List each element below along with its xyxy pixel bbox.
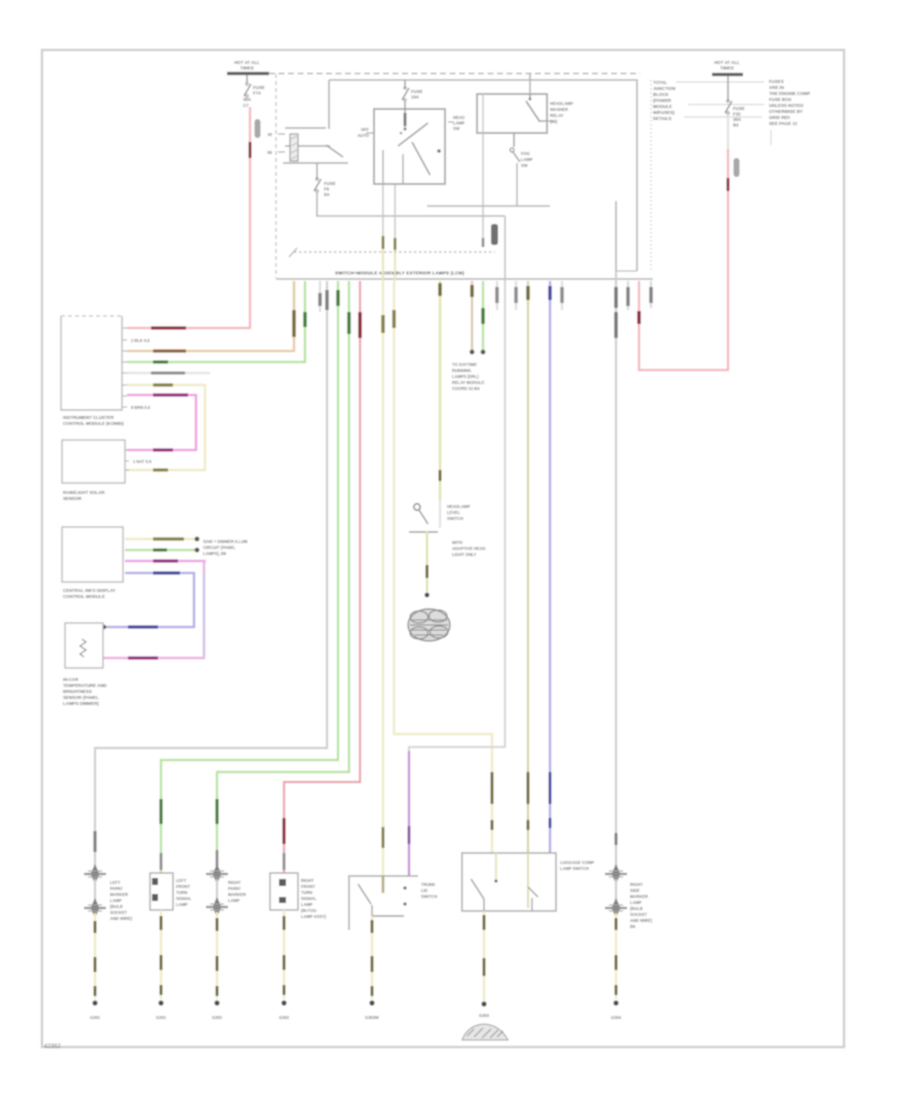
ground G301 col1 [90, 1000, 101, 1020]
svg-text:RIGHT: RIGHT [301, 878, 314, 883]
svg-text:CENTRAL INFO DISPLAY: CENTRAL INFO DISPLAY [63, 588, 116, 593]
svg-text:BRIGHTNESS: BRIGHTNESS [63, 689, 92, 694]
svg-text:SIDE: SIDE [630, 888, 640, 893]
fuse F4 above switch [402, 80, 423, 109]
label segments on mech rods [382, 236, 385, 249]
svg-text:10A: 10A [411, 95, 420, 100]
svg-text:RIGHT: RIGHT [228, 880, 241, 885]
fuse F1 (left, 30A) [243, 75, 265, 108]
svg-text:SWITCH: SWITCH [447, 516, 463, 521]
node HOT AT ALL TIMES (right) [714, 60, 740, 71]
wire green to left front turn lamp (cascade 2) [161, 281, 338, 873]
module M1 instrument cluster box [61, 316, 122, 410]
relay K2 right pin label [547, 101, 573, 124]
junction block dashed left edge [275, 74, 277, 278]
wire gray to right rear lamp [615, 271, 617, 868]
svg-text:LAMP: LAMP [521, 157, 533, 162]
svg-text:F74: F74 [253, 91, 261, 96]
svg-text:FUSES: FUSES [769, 79, 784, 84]
ground G307 col7 [611, 1000, 622, 1020]
wire drop from bus to relay K2 [529, 74, 531, 94]
svg-text:TO DAYTIME: TO DAYTIME [452, 362, 477, 367]
wire tan M1 row3 to module pin [127, 281, 294, 351]
label col3 lamp [228, 880, 246, 903]
wire red horizontal into box K1 row1 [127, 327, 251, 329]
svg-text:GRID REF.: GRID REF. [769, 115, 791, 120]
wire yellow col1 to ground [94, 913, 96, 999]
svg-text:5A: 5A [324, 192, 330, 197]
svg-text:FRONT: FRONT [301, 884, 316, 889]
svg-text:RIGHT: RIGHT [630, 882, 643, 887]
svg-text:(POWER: (POWER [653, 98, 672, 103]
svg-text:CONTROL MODULE (KOMBI): CONTROL MODULE (KOMBI) [63, 421, 124, 426]
svg-text:DETAILS: DETAILS [653, 116, 672, 121]
svg-text:LAMP: LAMP [301, 902, 313, 907]
lamp L2 left turn signal box [150, 873, 173, 910]
wire green M1 row4 to module pin [127, 281, 305, 362]
svg-text:G304: G304 [611, 1015, 622, 1020]
svg-text:42352: 42352 [44, 1044, 61, 1050]
svg-text:ADAPTIVE HEAD: ADAPTIVE HEAD [452, 546, 485, 551]
svg-text:RELAY MODULE: RELAY MODULE [452, 380, 485, 385]
label S5 [421, 882, 437, 899]
wire red horizontal to module pin [638, 369, 729, 371]
svg-text:SIGNAL: SIGNAL [176, 896, 192, 901]
svg-text:G301: G301 [90, 1015, 101, 1020]
svg-text:S240 + DIMMER ILLUM: S240 + DIMMER ILLUM [203, 539, 248, 544]
wire tan stub to DRL splice dot [470, 281, 475, 354]
wire white stub pin 13 [496, 281, 498, 310]
switch S2 (below relay K2) [510, 133, 533, 206]
svg-text:LAMP: LAMP [228, 898, 240, 903]
svg-text:(BULB: (BULB [110, 904, 123, 909]
svg-text:SOCKET: SOCKET [630, 912, 648, 917]
svg-text:F5: F5 [324, 187, 330, 192]
wire khaki to brake switch S3 [439, 281, 441, 500]
label RD/WT code on riser (dark) [637, 311, 641, 324]
svg-text:LAMP: LAMP [176, 902, 188, 907]
wire white M1 row5 [127, 372, 210, 374]
svg-text:30: 30 [267, 132, 272, 137]
junction block dotted inner right edge [650, 80, 652, 270]
switch S5 license lamp assembly (open box) [349, 876, 418, 930]
svg-text:SW: SW [521, 163, 528, 168]
label splice destination text [203, 539, 248, 556]
mechanical linkage dashed line [294, 251, 495, 253]
label M1 name [63, 415, 124, 426]
wire magenta M3 row3 U-turn to S4 [103, 560, 206, 658]
label col7 lamp [630, 882, 653, 929]
svg-text:LEVEL: LEVEL [447, 510, 461, 515]
svg-text:FUSE: FUSE [253, 85, 265, 90]
junction block inner bottom line [616, 270, 637, 272]
svg-text:AND WIRE): AND WIRE) [110, 916, 133, 921]
wire khaki inside S5 [382, 876, 385, 893]
bus bar right (hot feed) [712, 73, 743, 76]
wire white down to parking lamp feed [504, 216, 506, 281]
connector C3a (col3 upper) [206, 864, 228, 884]
svg-text:LEFT: LEFT [176, 878, 187, 883]
label L2 [176, 878, 192, 907]
label M3 name [63, 588, 116, 599]
svg-text:FUSE: FUSE [733, 106, 745, 111]
svg-text:LID: LID [421, 888, 428, 893]
svg-text:W/FUSES): W/FUSES) [653, 110, 675, 115]
wire white feed down-left becoming violet to license sw [409, 281, 505, 876]
svg-text:SWITCH+MODULE ASSEMBLY EXTERIO: SWITCH+MODULE ASSEMBLY EXTERIOR LAMPS (L… [335, 271, 465, 276]
svg-text:LAMPS DIMMER): LAMPS DIMMER) [63, 701, 99, 706]
switch S3 inline [409, 500, 440, 532]
svg-text:SOCKET: SOCKET [110, 910, 128, 915]
wire yellow col2 to ground [160, 910, 162, 999]
svg-text:THE ENGINE COMP: THE ENGINE COMP [769, 91, 810, 96]
svg-text:RELAY: RELAY [550, 113, 564, 118]
svg-text:FRONT: FRONT [176, 884, 191, 889]
svg-text:JUNCTION: JUNCTION [653, 86, 675, 91]
rheostat S4 dimmer box [65, 623, 103, 668]
svg-text:HOT AT ALL: HOT AT ALL [234, 60, 260, 65]
wire relay K5 output to fuse F3 [316, 163, 318, 179]
wire yellow M1 row6 U-turn to M2 [127, 385, 205, 470]
label S4 name [63, 677, 107, 706]
relay K6 trunk lamp box [462, 853, 556, 911]
svg-text:30A: 30A [733, 117, 742, 122]
wire white stub pin 3 [319, 281, 321, 312]
svg-text:PARK/: PARK/ [228, 886, 241, 891]
label M2 name [63, 490, 106, 501]
wire white stub pin 17 [561, 281, 563, 310]
svg-text:SEE PAGE 12: SEE PAGE 12 [769, 121, 798, 126]
svg-text:SENSOR: SENSOR [63, 496, 82, 501]
ground G303 col3 [212, 1000, 223, 1020]
wire horizontal collector line [427, 205, 550, 207]
svg-text:LAMP: LAMP [453, 121, 465, 126]
relay K2 (right box) [477, 94, 547, 133]
ground G304 col4 [279, 1000, 290, 1020]
svg-text:UNLESS NOTED: UNLESS NOTED [769, 103, 803, 108]
wire yellow col7 to ground [615, 913, 617, 999]
svg-text:SWITCH: SWITCH [421, 894, 437, 899]
wire red fuse F1 to instrument cluster pin (vertical) [249, 107, 251, 325]
splice cloud G [408, 609, 450, 641]
ground G302 col2 [156, 1000, 167, 1020]
svg-text:RAIN/LIGHT SOLAR: RAIN/LIGHT SOLAR [63, 490, 106, 495]
label S3 text [447, 504, 485, 557]
svg-text:CIRCUIT (PANEL: CIRCUIT (PANEL [203, 545, 236, 550]
svg-text:30A: 30A [243, 97, 252, 102]
svg-text:SIGNAL: SIGNAL [301, 896, 317, 901]
svg-text:WASHER: WASHER [550, 107, 568, 112]
wire white stub pin 15 [515, 281, 517, 310]
node HOT AT ALL TIMES (left) [234, 60, 260, 71]
connector C7b (col7 lower) [605, 898, 627, 918]
fuse F3 (5A) [314, 178, 336, 197]
wire mech rods from switch S1 down [382, 185, 384, 238]
svg-text:(85): (85) [550, 119, 558, 124]
bus bar left (hot feed) [227, 72, 269, 75]
wire blue to tail lamp relay box [546, 281, 550, 864]
svg-text:WITH: WITH [452, 540, 463, 545]
svg-text:G302: G302 [279, 1015, 290, 1020]
svg-text:TRUNK: TRUNK [421, 882, 435, 887]
label segment on link wire [482, 238, 485, 247]
svg-text:B2: B2 [733, 123, 739, 128]
svg-text:2 BLK 0.5: 2 BLK 0.5 [131, 338, 150, 343]
svg-text:MODULE: MODULE [653, 104, 672, 109]
ground G305 col5 [365, 1000, 379, 1020]
wire red riser into module pin B [638, 281, 640, 371]
svg-text:AND WIRE): AND WIRE) [630, 918, 653, 923]
module M2 pin ticks [125, 450, 129, 470]
svg-text:B6: B6 [630, 924, 636, 929]
svg-text:RUNNING: RUNNING [452, 368, 471, 373]
svg-text:INSTRUMENT CLUSTER: INSTRUMENT CLUSTER [63, 415, 115, 420]
wire gray stub pin 20 [627, 281, 629, 310]
svg-text:BLOCK: BLOCK [653, 92, 669, 97]
svg-text:MARKER: MARKER [110, 892, 128, 897]
wire green stub to DRL splice dot [481, 281, 486, 354]
svg-text:OFF: OFF [361, 127, 370, 132]
linkage end tick [289, 248, 297, 257]
wire khaki below S3 to splice cloud [425, 531, 430, 597]
wire col3 between connectors [216, 879, 218, 902]
svg-text:FUSE: FUSE [411, 89, 423, 94]
svg-text:TURN: TURN [301, 890, 312, 895]
svg-text:TOTAL: TOTAL [653, 80, 668, 85]
label RD wire code (dark segment) [249, 142, 252, 158]
wire yellow col6 to ground [483, 911, 485, 1001]
svg-text:LAMP ASSY): LAMP ASSY) [301, 914, 327, 919]
svg-text:LAMP: LAMP [630, 900, 642, 905]
wire col7 between connectors [615, 879, 617, 903]
wire white fuse F2 lead [727, 115, 729, 149]
label L4 [301, 878, 327, 919]
svg-text:ARE IN: ARE IN [769, 85, 784, 90]
svg-text:(IN FOG: (IN FOG [301, 908, 316, 913]
wire distribution line [329, 80, 637, 271]
svg-text:SW: SW [453, 126, 460, 131]
label fuse location note (far right) [769, 79, 810, 145]
switch S1 right pin label [448, 115, 465, 131]
svg-text:FUSE: FUSE [324, 181, 336, 186]
svg-text:LUGGAGE COMP: LUGGAGE COMP [560, 860, 594, 865]
svg-text:TURN: TURN [176, 890, 187, 895]
fuse F2 (right, 30A) [725, 76, 745, 128]
wire yellow col5 to ground [371, 916, 373, 999]
svg-text:TEMPERATURE AND: TEMPERATURE AND [63, 683, 107, 688]
svg-text:LAMPS (DRL): LAMPS (DRL) [452, 374, 479, 379]
wire red from fuse F2 down [727, 149, 729, 371]
svg-text:MARKER: MARKER [228, 892, 246, 897]
wire gray to left park lamp (cascade 1) [95, 281, 327, 868]
lamp L4 fog lamp box [270, 873, 298, 910]
svg-text:G301: G301 [156, 1015, 167, 1020]
svg-text:G302: G302 [212, 1015, 223, 1020]
wire yellow to license lamp switch leg [382, 281, 384, 876]
label K6 [560, 860, 594, 871]
svg-text:MARKER: MARKER [630, 894, 648, 899]
svg-text:LEFT: LEFT [110, 880, 121, 885]
svg-text:85: 85 [267, 150, 272, 155]
svg-text:G303: G303 [479, 1013, 490, 1018]
wire dashed bus top edge [269, 73, 640, 75]
wire green M3 row2 to splice dot [125, 548, 199, 553]
wire blue M3 row4 U-turn to S4 [102, 573, 194, 629]
connector label C oval on red wire [255, 119, 261, 138]
wire fuse F3 output down and right [317, 193, 505, 216]
connector C3b (col3 lower) [206, 897, 228, 917]
svg-text:AUTO: AUTO [357, 133, 369, 138]
svg-text:COORD 22-B4: COORD 22-B4 [452, 386, 480, 391]
label DRL destination text [452, 362, 485, 391]
svg-text:TIMES: TIMES [720, 66, 733, 71]
wire gray stub pin 22 [650, 281, 652, 308]
wire mechanical link from relay K2 left [482, 94, 484, 133]
wire yellow col4 to ground [283, 910, 285, 999]
label RD/GN code on row1 (dark) [151, 326, 186, 329]
svg-text:PARK/: PARK/ [110, 886, 123, 891]
svg-text:(BULB: (BULB [630, 906, 643, 911]
svg-text:IN-CAR: IN-CAR [63, 677, 79, 682]
wire green to right front turn lamp (cascade 3) [217, 281, 349, 868]
svg-text:HEAD: HEAD [453, 115, 465, 120]
svg-text:OTHERWISE BY: OTHERWISE BY [769, 109, 803, 114]
svg-text:LAMPS), B6: LAMPS), B6 [203, 551, 227, 556]
svg-text:1 NAT 0.5: 1 NAT 0.5 [133, 459, 152, 464]
module M3 light switch cluster box [62, 527, 123, 582]
module M2 rain light sensor box [62, 440, 125, 483]
connector C1a (col1 upper) [84, 864, 106, 884]
junction block bottom edge [276, 278, 653, 280]
wire yellow col3 to ground [216, 912, 218, 999]
svg-text:LIGHT ONLY: LIGHT ONLY [452, 552, 477, 557]
connector label oval on right red wire [734, 158, 740, 177]
svg-text:FOG: FOG [521, 151, 530, 156]
ground G306 col6 [462, 1001, 508, 1040]
wire magenta M1 row7 U-turn to M2 [127, 395, 196, 450]
label col1 lamp [110, 880, 133, 921]
wire yellow jog right to tail lamp feed [394, 281, 492, 853]
module M1 pin ticks [122, 328, 127, 407]
svg-text:HEADLAMP: HEADLAMP [447, 504, 470, 509]
connector C7a (col7 upper) [605, 864, 627, 884]
svg-text:C7: C7 [243, 103, 249, 108]
switch S1 left pin label [357, 127, 374, 138]
relay K2 internals [526, 94, 547, 122]
connector label cylinder C2 [491, 224, 498, 245]
svg-text:SENSOR (PANEL: SENSOR (PANEL [63, 695, 99, 700]
svg-text:F32: F32 [733, 112, 741, 117]
label RD code (dark segment right wire) [727, 178, 730, 191]
svg-text:FUSE BOX: FUSE BOX [769, 97, 792, 102]
svg-text:TIMES: TIMES [240, 66, 253, 71]
wire col1 between connectors [94, 879, 96, 903]
wire khaki to tail lamp relay box [527, 281, 529, 853]
svg-text:LAMP: LAMP [110, 898, 122, 903]
svg-text:8 BRN 0.5: 8 BRN 0.5 [131, 405, 151, 410]
switch S1 internals [383, 109, 441, 184]
svg-text:LAMP SWITCH: LAMP SWITCH [560, 866, 589, 871]
svg-text:CONTROL MODULE: CONTROL MODULE [63, 594, 105, 599]
wire yellow M3 row1 to splice dot [125, 537, 199, 542]
switch S1 headlamp switch box [374, 109, 445, 184]
connector C1b (col1 lower) [84, 898, 106, 918]
relay K5 (inside junction block, left) [267, 80, 348, 163]
wire red to fog lamp assembly (cascade 4) [284, 281, 360, 873]
label junction block (right of dashed box) [653, 80, 764, 121]
svg-text:HEADLAMP: HEADLAMP [550, 101, 573, 106]
svg-text:HOT AT ALL: HOT AT ALL [714, 60, 740, 65]
svg-text:G303W: G303W [365, 1015, 379, 1020]
